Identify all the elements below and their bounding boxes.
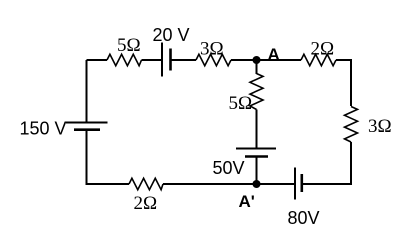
svg-text:5Ω: 5Ω bbox=[117, 35, 141, 56]
battery B 80V long plate bbox=[294, 168, 296, 200]
svg-text:3Ω: 3Ω bbox=[200, 39, 224, 60]
battery B 80V short plate bbox=[300, 174, 303, 192]
wire right-bottom bbox=[302, 142, 351, 184]
wire top-right corner bbox=[336, 60, 351, 106]
resistor R 3ohm top bbox=[196, 54, 231, 65]
resistor R 2ohm top bbox=[301, 54, 336, 65]
svg-text:3Ω: 3Ω bbox=[368, 116, 392, 137]
wire A' to 80V battery bbox=[257, 183, 296, 185]
svg-text:80V: 80V bbox=[288, 208, 320, 228]
svg-text:150 V: 150 V bbox=[20, 119, 67, 139]
svg-text:20 V: 20 V bbox=[153, 25, 190, 45]
resistor R 5ohm top bbox=[107, 54, 142, 65]
wire left-top bbox=[86, 60, 88, 123]
resistor R 3ohm right vertical bbox=[345, 107, 358, 143]
node A' junction dot bbox=[253, 180, 261, 188]
svg-text:2Ω: 2Ω bbox=[311, 39, 335, 60]
wire between R5 and 20V battery bbox=[142, 59, 163, 61]
resistor R 2ohm bottom bbox=[129, 178, 163, 189]
svg-text:5Ω: 5Ω bbox=[229, 93, 253, 114]
battery B 20V short plate bbox=[169, 49, 172, 71]
battery B 150V long plate bbox=[66, 122, 108, 124]
wire node A down to R5 mid bbox=[256, 60, 258, 74]
wire between 20V battery and R 3ohm bbox=[171, 59, 197, 61]
wire R3 to node A to R2 bbox=[231, 59, 301, 61]
wire 50V battery to node A' bbox=[256, 157, 258, 185]
svg-text:2Ω: 2Ω bbox=[134, 193, 158, 214]
svg-text:A: A bbox=[268, 45, 280, 64]
resistor R 5ohm middle vertical bbox=[250, 74, 263, 110]
battery B 150V short plate bbox=[74, 128, 100, 131]
svg-text:50V: 50V bbox=[213, 158, 245, 178]
wire top-left horizontal bbox=[87, 59, 108, 61]
wire R5 mid to 50V battery bbox=[256, 110, 258, 149]
wire bottom-left from R2 to A' bbox=[163, 183, 257, 185]
battery B 20V long plate bbox=[161, 43, 163, 77]
wire bottom-left corner bbox=[87, 130, 130, 184]
battery B 50V short plate bbox=[245, 155, 268, 158]
battery B 50V long plate bbox=[236, 148, 276, 150]
node A junction dot bbox=[253, 56, 261, 64]
svg-text:A': A' bbox=[239, 192, 255, 211]
